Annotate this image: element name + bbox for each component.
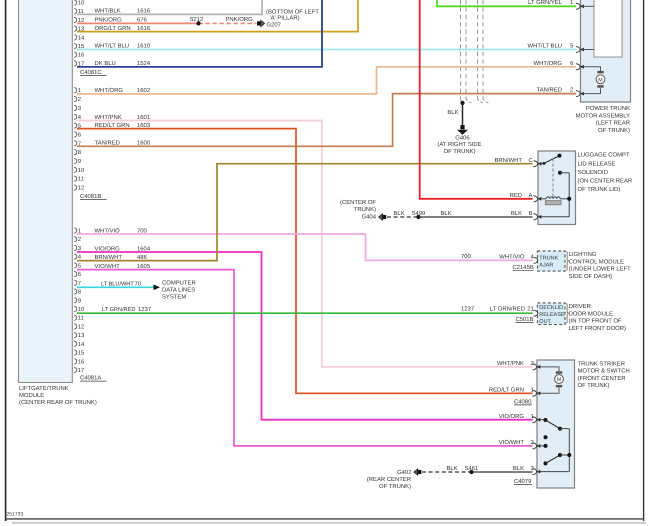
svg-text:S461: S461 — [465, 465, 479, 472]
svg-text:1610: 1610 — [137, 43, 151, 50]
svg-text:10: 10 — [78, 0, 85, 7]
svg-text:SYSTEM: SYSTEM — [162, 293, 186, 300]
svg-text:1600: 1600 — [137, 140, 151, 147]
svg-text:16: 16 — [78, 52, 85, 59]
svg-text:TAN/RED: TAN/RED — [537, 87, 562, 94]
svg-text:LIGHTING: LIGHTING — [569, 251, 597, 258]
svg-text:(UNDER LOWER LEFT: (UNDER LOWER LEFT — [569, 266, 632, 273]
svg-text:M: M — [557, 377, 561, 383]
svg-text:DRIVER: DRIVER — [569, 303, 591, 310]
svg-text:VIO/ORG: VIO/ORG — [499, 413, 525, 420]
svg-text:BLK: BLK — [447, 465, 458, 472]
svg-text:1603: 1603 — [137, 122, 151, 129]
svg-text:DECKLID: DECKLID — [539, 305, 563, 311]
svg-text:16: 16 — [78, 358, 85, 365]
svg-text:S499: S499 — [412, 210, 426, 217]
svg-text:SOLENOID: SOLENOID — [578, 169, 608, 176]
svg-text:C4081A: C4081A — [80, 375, 101, 382]
svg-text:WHT/LT BLU: WHT/LT BLU — [528, 43, 562, 50]
svg-text:(IN TOP FRONT OF: (IN TOP FRONT OF — [569, 318, 622, 325]
svg-text:MODULE: MODULE — [19, 392, 44, 399]
svg-text:700: 700 — [137, 227, 148, 234]
svg-text:700: 700 — [461, 253, 472, 260]
svg-text:BLK: BLK — [513, 465, 524, 472]
svg-text:OF TRUNK): OF TRUNK) — [444, 148, 476, 155]
svg-text:21: 21 — [527, 306, 534, 313]
svg-text:14: 14 — [78, 341, 85, 348]
svg-text:BLK: BLK — [511, 210, 522, 217]
svg-text:A: A — [529, 192, 533, 199]
svg-text:LT GRN/RED: LT GRN/RED — [490, 306, 525, 313]
svg-text:VIO/WHT: VIO/WHT — [95, 263, 121, 270]
svg-text:WHT/ORG: WHT/ORG — [95, 87, 124, 94]
svg-text:14: 14 — [78, 34, 85, 41]
svg-text:LT GRN/RED: LT GRN/RED — [102, 306, 135, 313]
svg-text:C2145B: C2145B — [513, 264, 534, 271]
svg-text:10: 10 — [78, 306, 85, 313]
svg-text:WHT/ORG: WHT/ORG — [534, 60, 563, 67]
svg-text:SIDE OF DASH): SIDE OF DASH) — [569, 273, 613, 280]
svg-text:(LEFT REAR: (LEFT REAR — [596, 120, 630, 127]
svg-text:TAN/RED: TAN/RED — [95, 140, 120, 147]
svg-text:1602: 1602 — [137, 87, 150, 94]
svg-text:10: 10 — [78, 167, 85, 174]
svg-text:TRUNK: TRUNK — [539, 256, 558, 262]
svg-text:1616: 1616 — [137, 25, 151, 32]
svg-text:(FRONT CENTER: (FRONT CENTER — [578, 375, 626, 382]
svg-text:WHT/VIO: WHT/VIO — [95, 227, 121, 234]
svg-text:WHT/PNK: WHT/PNK — [497, 360, 524, 367]
svg-text:2: 2 — [78, 96, 81, 103]
svg-text:12: 12 — [78, 185, 85, 192]
svg-text:2: 2 — [78, 236, 81, 243]
svg-text:WHT/PNK: WHT/PNK — [95, 114, 122, 121]
svg-text:S212: S212 — [190, 16, 204, 23]
svg-text:1601: 1601 — [137, 114, 150, 121]
svg-text:251733: 251733 — [7, 511, 24, 517]
svg-text:B: B — [529, 210, 533, 217]
svg-text:LUGGAGE COMPT: LUGGAGE COMPT — [578, 152, 630, 159]
svg-text:DATA LINES: DATA LINES — [162, 286, 195, 293]
svg-text:1604: 1604 — [137, 245, 151, 252]
svg-text:MOTOR ASSEMBLY: MOTOR ASSEMBLY — [576, 112, 631, 119]
svg-text:11: 11 — [78, 315, 84, 322]
svg-text:'A' PILLAR): 'A' PILLAR) — [270, 14, 300, 21]
svg-text:(AT RIGHT SIDE: (AT RIGHT SIDE — [437, 141, 481, 148]
svg-text:TRUNK STRIKER: TRUNK STRIKER — [578, 361, 625, 368]
svg-text:WHT/LT BLU: WHT/LT BLU — [95, 43, 129, 50]
svg-text:G406: G406 — [455, 134, 470, 141]
svg-text:BLK: BLK — [441, 210, 452, 217]
svg-text:RED/LT GRN: RED/LT GRN — [95, 122, 130, 129]
svg-text:COMPUTER: COMPUTER — [162, 279, 196, 286]
svg-text:VIO/ORG: VIO/ORG — [95, 245, 121, 252]
svg-text:C4081B: C4081B — [80, 193, 101, 200]
svg-text:OF TRUNK LID): OF TRUNK LID) — [578, 186, 621, 193]
svg-text:(BOTTOM OF LEFT: (BOTTOM OF LEFT — [266, 8, 319, 15]
svg-text:1: 1 — [570, 0, 573, 6]
svg-text:1237: 1237 — [138, 306, 151, 313]
svg-text:BLK: BLK — [394, 210, 405, 217]
svg-text:1524: 1524 — [137, 60, 151, 67]
svg-text:1616: 1616 — [137, 8, 151, 15]
svg-text:LT GRN/YEL: LT GRN/YEL — [528, 0, 563, 6]
svg-text:LIFTGATE/TRUNK: LIFTGATE/TRUNK — [19, 385, 69, 392]
svg-text:ORG/LT GRN: ORG/LT GRN — [95, 25, 131, 32]
svg-text:17: 17 — [78, 367, 85, 374]
svg-text:PNK/ORG: PNK/ORG — [95, 16, 123, 23]
svg-text:RELEASE: RELEASE — [539, 312, 565, 318]
svg-text:LT BLU/WHT: LT BLU/WHT — [101, 281, 134, 288]
svg-text:1605: 1605 — [137, 263, 151, 270]
svg-text:7: 7 — [78, 280, 81, 287]
svg-text:OF TRUNK): OF TRUNK) — [598, 127, 630, 134]
svg-text:G402: G402 — [397, 469, 411, 476]
svg-text:WHT/BLK: WHT/BLK — [95, 8, 121, 15]
svg-text:BRN/WHT: BRN/WHT — [95, 254, 123, 261]
svg-text:G404: G404 — [362, 214, 377, 221]
svg-text:AJAR: AJAR — [539, 263, 553, 269]
svg-text:DOOR MODULE: DOOR MODULE — [569, 310, 614, 317]
svg-text:G207: G207 — [267, 22, 281, 29]
svg-text:(CENTER REAR OF TRUNK): (CENTER REAR OF TRUNK) — [19, 399, 97, 406]
svg-text:OF TRUNK): OF TRUNK) — [379, 483, 411, 490]
svg-text:VIO/WHT: VIO/WHT — [499, 439, 525, 446]
svg-text:9: 9 — [78, 158, 81, 165]
svg-text:C: C — [529, 157, 534, 164]
svg-text:15: 15 — [78, 350, 85, 357]
svg-text:DK BLU: DK BLU — [95, 60, 116, 67]
svg-text:LID RELEASE: LID RELEASE — [578, 160, 616, 167]
svg-text:OF TRUNK): OF TRUNK) — [578, 382, 610, 389]
svg-text:11: 11 — [78, 176, 84, 183]
svg-text:CONTROL MODULE: CONTROL MODULE — [569, 258, 624, 265]
svg-text:C501B: C501B — [516, 316, 534, 323]
svg-text:C4081C: C4081C — [80, 69, 102, 76]
svg-text:BLK: BLK — [447, 109, 458, 116]
svg-text:C4080: C4080 — [514, 399, 532, 406]
svg-text:486: 486 — [137, 254, 148, 261]
svg-text:POWER TRUNK: POWER TRUNK — [586, 105, 630, 112]
svg-text:LEFT FRONT DOOR): LEFT FRONT DOOR) — [569, 325, 626, 332]
svg-text:9: 9 — [78, 297, 81, 304]
svg-text:TRUNK): TRUNK) — [354, 206, 376, 213]
svg-text:70: 70 — [135, 281, 142, 288]
svg-text:BRN/WHT: BRN/WHT — [495, 157, 523, 164]
svg-text:2: 2 — [570, 87, 573, 94]
svg-text:OUT: OUT — [539, 319, 551, 325]
svg-text:676: 676 — [137, 16, 148, 23]
svg-text:(ON CENTER REAR: (ON CENTER REAR — [578, 178, 633, 185]
svg-text:13: 13 — [78, 332, 85, 339]
svg-text:PNK/ORG: PNK/ORG — [226, 16, 254, 23]
svg-text:12: 12 — [78, 323, 85, 330]
svg-text:1237: 1237 — [461, 306, 474, 313]
svg-text:(CENTER OF: (CENTER OF — [340, 199, 376, 206]
svg-text:MOTOR & SWITCH: MOTOR & SWITCH — [578, 368, 630, 375]
svg-text:WHT/VIO: WHT/VIO — [499, 253, 525, 260]
svg-text:(REAR CENTER: (REAR CENTER — [367, 476, 411, 483]
svg-text:M: M — [598, 77, 602, 83]
svg-text:RED: RED — [510, 192, 522, 199]
svg-text:RED/LT GRN: RED/LT GRN — [489, 387, 524, 394]
svg-text:C4079: C4079 — [514, 478, 531, 485]
